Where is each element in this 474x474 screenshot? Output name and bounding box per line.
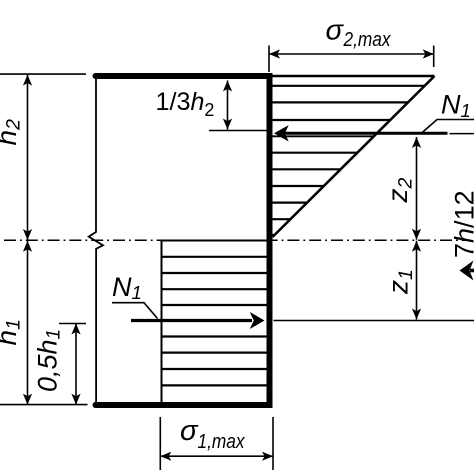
extension sigma2max left: [268, 46, 270, 73]
dimension h1 line: [27, 240, 29, 404]
extension sigma1max right: [272, 417, 274, 470]
extension sigma1max left: [159, 417, 161, 470]
force N1 bottom line: [131, 319, 252, 322]
force N1 top line: [284, 132, 448, 135]
svg-text:σ: σ: [180, 415, 199, 447]
clipped force arrow right edge: [460, 261, 474, 281]
tick for 1/3h2: [209, 130, 270, 132]
leader N1 top: [421, 120, 474, 134]
extension right of N1 bottom: [274, 320, 474, 322]
dimension 1/3h2 line: [227, 81, 229, 130]
dimension z2 line: [416, 137, 418, 240]
dimension z1 line: [416, 241, 418, 320]
svg-text:1/3h2: 1/3h2: [156, 88, 215, 120]
dimension 0,5h1 line: [75, 324, 77, 405]
tick for 0,5h1: [59, 323, 86, 325]
dimension sigma2max line: [269, 53, 434, 55]
triangle hypotenuse: [273, 76, 435, 237]
centerline (dash-dot axis): [4, 239, 471, 241]
svg-text:7h/12: 7h/12: [450, 190, 474, 258]
svg-text:1,max: 1,max: [198, 431, 246, 453]
svg-text:2,max: 2,max: [343, 29, 392, 51]
triangle hatch lines: [269, 85, 425, 87]
svg-text:N1: N1: [112, 272, 142, 303]
leader N1 bottom: [112, 303, 158, 319]
triangle stress top edge: [270, 75, 435, 77]
wall left thin edge with break symbol: [89, 76, 103, 405]
svg-text:z2: z2: [382, 178, 417, 204]
svg-text:N1: N1: [441, 90, 471, 122]
stress block hatch lines: [162, 256, 269, 258]
dimension h2 line: [27, 75, 29, 240]
dimension sigma1max line: [160, 455, 273, 457]
wall outline thick (top, right, bottom sides): [96, 76, 270, 405]
extension line bottom-left: [0, 404, 88, 406]
svg-text:h1: h1: [0, 319, 25, 345]
extension sigma2max right: [433, 46, 435, 68]
svg-text:0,5h1: 0,5h1: [33, 329, 65, 392]
svg-text:z1: z1: [383, 269, 418, 295]
stress block (bottom) outline: [162, 241, 269, 403]
svg-text:σ: σ: [326, 15, 345, 47]
extension right of N1 top: [450, 133, 474, 135]
extension line top-left: [0, 73, 86, 75]
svg-text:h2: h2: [0, 119, 25, 146]
